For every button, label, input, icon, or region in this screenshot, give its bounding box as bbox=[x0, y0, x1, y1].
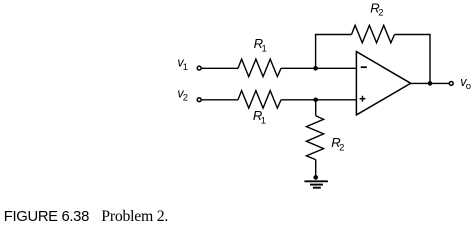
svg-text:FIGURE 6.38: FIGURE 6.38 bbox=[4, 209, 89, 225]
svg-text:1: 1 bbox=[262, 43, 267, 54]
node vo terminal bbox=[449, 81, 453, 85]
ground bbox=[304, 180, 328, 182]
wire R1 to inverting input bbox=[281, 67, 356, 69]
wire feedback left segment bbox=[315, 34, 352, 36]
wire R1 to noninverting input bbox=[281, 99, 356, 101]
resistor R1 (top) bbox=[238, 59, 281, 77]
node junction inverting input bbox=[313, 66, 318, 71]
svg-text:1: 1 bbox=[183, 62, 188, 73]
node junction at ground bbox=[313, 175, 318, 180]
node v2 terminal bbox=[197, 98, 201, 102]
wire junction up to feedback bbox=[315, 35, 317, 69]
wire R2 to ground bbox=[315, 160, 317, 178]
op-amp plus sign bbox=[360, 98, 366, 100]
node output junction bbox=[428, 81, 433, 86]
svg-text:1: 1 bbox=[261, 115, 266, 126]
svg-text:2: 2 bbox=[183, 93, 188, 104]
svg-text:2: 2 bbox=[339, 142, 344, 153]
resistor R2 (to ground) bbox=[306, 116, 323, 160]
op-amp minus sign bbox=[361, 66, 367, 68]
svg-text:2: 2 bbox=[378, 8, 383, 19]
svg-text:o: o bbox=[466, 81, 471, 92]
wire v2 terminal to R1 bbox=[202, 99, 238, 101]
op-amp U1 bbox=[356, 52, 410, 115]
wire feedback down to output node bbox=[429, 35, 431, 84]
wire v1 terminal to R1 bbox=[202, 67, 238, 69]
wire feedback right segment bbox=[395, 34, 431, 36]
node junction noninverting input bbox=[313, 98, 318, 103]
svg-text:Problem 2.: Problem 2. bbox=[101, 208, 168, 225]
node v1 terminal bbox=[197, 66, 201, 70]
wire junction down to R2 bbox=[315, 100, 317, 116]
resistor R2 (feedback) bbox=[352, 25, 395, 43]
wire op-amp output bbox=[411, 82, 449, 84]
resistor R1 (bottom) bbox=[238, 91, 281, 109]
